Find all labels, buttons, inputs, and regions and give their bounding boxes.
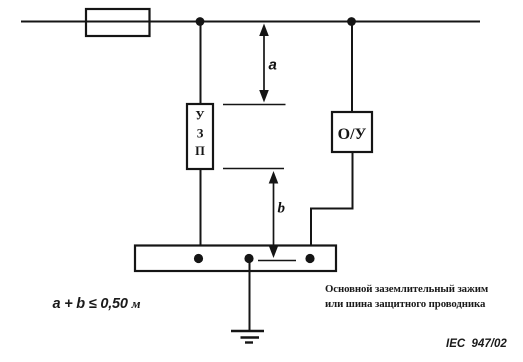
label: main earthing terminal note <box>325 282 488 311</box>
ground symbol <box>231 331 264 343</box>
dimension b: extension line inside earthing bar <box>258 260 296 262</box>
label a (dimension) <box>269 57 277 74</box>
svg-text:З: З <box>197 127 204 141</box>
svg-text:П: П <box>195 144 205 158</box>
svg-text:a: a <box>269 57 277 74</box>
fuse (disconnecting device) on top conductor <box>86 9 150 36</box>
node: junction of УЗП branch with top conductor <box>196 17 205 26</box>
busbar: main earthing terminal bar <box>135 246 336 272</box>
node: earth conductor terminal on bar <box>244 254 253 263</box>
wire: from top node down to О/У terminal <box>351 22 353 113</box>
dimension a: double-headed arrow <box>259 24 269 103</box>
dimension a: extension line below УЗП top <box>223 104 286 106</box>
wire: from О/У bottom terminal, jog left, down to earthing bar <box>311 152 353 246</box>
wire: top phase conductor <box>21 21 480 23</box>
node: О/У conductor terminal on bar <box>305 254 314 263</box>
svg-text:О/У: О/У <box>338 126 367 143</box>
label b (dimension) <box>278 201 286 217</box>
dimension b: extension line at УЗП bottom <box>223 168 284 170</box>
label: constraint a + b <= 0,50 m <box>53 296 141 312</box>
device УЗП (surge protective device) U1 <box>187 104 213 169</box>
dimension b: double-headed arrow <box>269 171 279 258</box>
wire: from top node down to УЗП terminal <box>200 22 202 105</box>
node: junction of О/У branch with top conductor <box>347 17 356 26</box>
device О/У (limiting device) U2 <box>332 112 372 152</box>
node: УЗП conductor terminal on bar <box>194 254 203 263</box>
wire: from УЗП bottom terminal down to earthing bar <box>200 169 202 246</box>
label: figure reference IEC 947/02 <box>446 338 507 350</box>
svg-text:У: У <box>195 109 204 123</box>
wire: earthing conductor from bar to earth electrode <box>249 259 251 332</box>
svg-text:b: b <box>278 201 286 217</box>
